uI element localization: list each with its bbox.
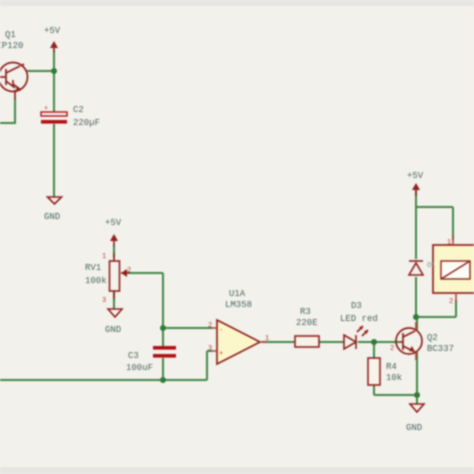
svg-text:-: -: [219, 327, 223, 335]
svg-text:1: 1: [447, 239, 451, 247]
svg-text:1: 1: [265, 335, 269, 343]
svg-text:TIP120: TIP120: [0, 41, 23, 51]
svg-text:GND: GND: [406, 423, 422, 433]
svg-text:R4: R4: [386, 362, 397, 372]
svg-text:+5V: +5V: [44, 26, 61, 36]
svg-text:Q2: Q2: [427, 333, 438, 343]
svg-text:3: 3: [208, 345, 212, 353]
svg-text:GND: GND: [44, 212, 60, 222]
svg-text:100k: 100k: [85, 276, 107, 286]
svg-text:+: +: [44, 105, 48, 113]
svg-text:2: 2: [390, 345, 394, 353]
svg-text:220µF: 220µF: [73, 118, 100, 128]
svg-text:3: 3: [102, 297, 106, 305]
svg-text:+5V: +5V: [407, 171, 424, 181]
svg-text:2: 2: [127, 267, 131, 275]
svg-text:10k: 10k: [386, 373, 402, 383]
svg-text:RV1: RV1: [85, 263, 101, 273]
svg-text:R3: R3: [300, 307, 311, 317]
svg-text:220E: 220E: [296, 318, 318, 328]
svg-text:LED red: LED red: [340, 314, 378, 324]
svg-text:GND: GND: [105, 325, 121, 335]
svg-text:O1: O1: [427, 262, 435, 270]
svg-text:2: 2: [449, 298, 453, 306]
svg-text:LM358: LM358: [225, 300, 252, 310]
svg-text:Q1: Q1: [5, 30, 16, 40]
svg-text:D3: D3: [351, 301, 362, 311]
svg-text:1: 1: [102, 253, 106, 261]
svg-text:U1A: U1A: [229, 289, 246, 299]
svg-text:100uF: 100uF: [126, 363, 153, 373]
svg-text:2: 2: [208, 322, 212, 330]
svg-text:+5V: +5V: [105, 218, 122, 228]
svg-text:BC337: BC337: [427, 344, 454, 354]
svg-text:+: +: [219, 350, 223, 358]
svg-text:C2: C2: [73, 105, 84, 115]
svg-text:C3: C3: [128, 351, 139, 361]
